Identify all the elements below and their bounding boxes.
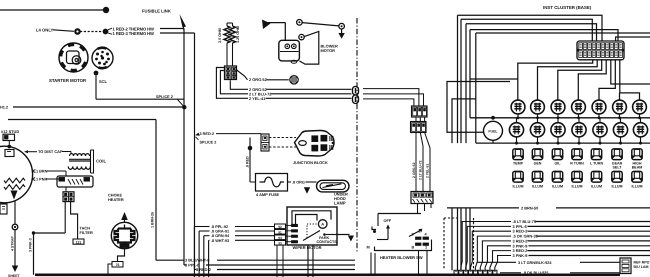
svg-text:REF RPO: REF RPO — [634, 261, 650, 265]
svg-text:FILTER: FILTER — [80, 230, 94, 235]
svg-text:1 PNK: 1 PNK — [36, 178, 47, 182]
svg-text:.8 GRA-91: .8 GRA-91 — [211, 230, 229, 234]
svg-text:STARTER MOTOR: STARTER MOTOR — [49, 78, 87, 83]
svg-text:1 BRN-26: 1 BRN-26 — [151, 212, 155, 228]
svg-text:COIL: COIL — [96, 159, 106, 164]
svg-text:HEATER: HEATER — [108, 197, 124, 202]
svg-text:B: B — [412, 245, 415, 249]
svg-text:2 ORG-52: 2 ORG-52 — [412, 162, 416, 178]
svg-text:2 LT BLU-72: 2 LT BLU-72 — [419, 160, 423, 180]
svg-text:1: 1 — [425, 245, 427, 249]
svg-text:OIL: OIL — [555, 161, 562, 165]
svg-text:#12 STUD: #12 STUD — [1, 129, 19, 134]
svg-text:JUNCTION BLOCK: JUNCTION BLOCK — [293, 160, 328, 165]
svg-text:WIPER MOTOR: WIPER MOTOR — [293, 245, 322, 250]
svg-text:OFF: OFF — [384, 219, 392, 223]
svg-text:TO DIST CAP: TO DIST CAP — [38, 149, 63, 154]
svg-text:4 AMP FUSE: 4 AMP FUSE — [256, 192, 280, 197]
svg-text:2 YEL-51: 2 YEL-51 — [426, 164, 430, 178]
svg-text:ILLUM: ILLUM — [552, 184, 563, 188]
svg-text:1.25 OHM: 1.25 OHM — [236, 26, 240, 43]
svg-text:3.0 OHM: 3.0 OHM — [218, 28, 222, 43]
svg-text:HEATER BLOWER SW: HEATER BLOWER SW — [380, 255, 423, 260]
svg-text:93: 93 — [278, 241, 282, 245]
svg-text:.8 ORG: .8 ORG — [292, 181, 305, 185]
svg-text:76: 76 — [116, 263, 120, 267]
svg-text:B/U LAM: B/U LAM — [634, 265, 649, 269]
svg-text:SCL: SCL — [99, 79, 108, 84]
svg-text:.8 RED: .8 RED — [245, 156, 249, 168]
svg-text:1 BRN: 1 BRN — [36, 170, 48, 174]
svg-text:SPLICE 2: SPLICE 2 — [200, 141, 217, 145]
svg-text:ILLUM: ILLUM — [572, 184, 583, 188]
svg-text:ILLUM: ILLUM — [532, 184, 543, 188]
svg-text:91: 91 — [278, 230, 282, 234]
svg-text:ILLUM: ILLUM — [513, 184, 524, 188]
svg-text:FUEL: FUEL — [488, 129, 498, 133]
svg-text:ILLUM: ILLUM — [591, 184, 602, 188]
svg-text:L TURN: L TURN — [590, 161, 604, 165]
svg-text:ILLUM: ILLUM — [612, 184, 623, 188]
svg-text:.8 DK BLU-925: .8 DK BLU-925 — [523, 271, 548, 275]
svg-text:GEN: GEN — [534, 161, 542, 165]
svg-text:2 YEL-41: 2 YEL-41 — [249, 96, 266, 101]
svg-text:CONTACTS: CONTACTS — [317, 240, 338, 244]
svg-text:SPLICE 2: SPLICE 2 — [156, 95, 173, 99]
svg-text:.8 GRN-94: .8 GRN-94 — [211, 234, 230, 238]
svg-text:2 ORG-52: 2 ORG-52 — [249, 77, 268, 82]
svg-text:ILLUM: ILLUM — [632, 184, 643, 188]
svg-text:LAMP: LAMP — [334, 200, 346, 205]
svg-text:M: M — [367, 245, 370, 249]
svg-text:SELT: SELT — [613, 166, 623, 170]
svg-text:H1.2: H1.2 — [0, 106, 8, 110]
svg-text:TEMP: TEMP — [513, 161, 524, 165]
svg-text:A: A — [321, 222, 324, 227]
svg-text:.8 PPL-92: .8 PPL-92 — [211, 225, 228, 229]
svg-text:1 RED-3 THERMO HW: 1 RED-3 THERMO HW — [113, 31, 155, 36]
svg-text:3 PNK-3: 3 PNK-3 — [29, 238, 33, 252]
svg-text:R TURN: R TURN — [570, 161, 584, 165]
svg-text:3 RED-2: 3 RED-2 — [200, 132, 215, 136]
svg-text:MOTOR: MOTOR — [321, 48, 336, 53]
svg-text:2 BRN-50: 2 BRN-50 — [521, 206, 538, 211]
svg-text:.8 WHT-93: .8 WHT-93 — [211, 239, 229, 243]
svg-text:BEAM: BEAM — [632, 166, 643, 170]
svg-text:121: 121 — [76, 240, 82, 244]
svg-text:INST CLUSTER (BASE): INST CLUSTER (BASE) — [543, 5, 592, 10]
svg-text:L4 ONLY: L4 ONLY — [36, 27, 54, 32]
svg-text:4 STRAP: 4 STRAP — [10, 236, 14, 251]
svg-text:92: 92 — [278, 225, 282, 229]
svg-text:FUSIBLE LINK: FUSIBLE LINK — [142, 8, 171, 13]
svg-text:94: 94 — [278, 236, 282, 240]
svg-text:3 PNK-9: 3 PNK-9 — [513, 253, 529, 258]
svg-text:3 LT GRN/BLK-924: 3 LT GRN/BLK-924 — [518, 261, 552, 265]
